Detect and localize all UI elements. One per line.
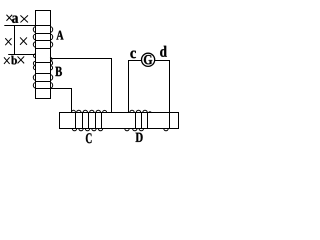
x mark row3 right	[18, 57, 24, 63]
coil B right bumps	[51, 58, 53, 89]
label a	[12, 16, 18, 23]
coil B left bumps	[33, 54, 35, 88]
coil A turn 1	[36, 25, 51, 27]
label B	[55, 67, 62, 76]
label G	[144, 55, 152, 64]
coil A turn 4	[36, 48, 51, 50]
coil B turn 3	[36, 81, 51, 83]
wire coil B bottom to coil C left end	[51, 89, 72, 113]
coil A turn 2	[36, 33, 51, 35]
wire terminal b	[9, 54, 36, 56]
coil C top bumps	[72, 110, 107, 112]
label c	[130, 51, 136, 59]
wire galvanometer loop left	[129, 61, 142, 113]
coil A left bumps	[33, 27, 35, 47]
coil A right bumps	[51, 27, 53, 47]
coil D turns	[136, 113, 148, 129]
coil A turn 3	[36, 40, 51, 42]
wire vertical from a-wire down to b-wire	[14, 26, 16, 55]
label A	[56, 31, 63, 40]
label D	[136, 133, 143, 142]
galvanometer G circle	[142, 53, 155, 66]
x mark row2 right	[20, 38, 26, 45]
coil D top bumps	[130, 110, 152, 112]
wire coil B top to coil C right end	[51, 59, 112, 113]
coil B turn 1	[36, 62, 51, 64]
coil B turn 4	[36, 88, 51, 90]
x mark row3 left	[4, 58, 9, 64]
x mark row2 left	[6, 39, 12, 45]
coil B turn 2	[36, 73, 51, 75]
wire galvanometer loop right	[155, 61, 170, 129]
x mark row1 left	[7, 15, 12, 20]
coil C bottom bumps	[72, 129, 102, 131]
iron core vertical	[36, 11, 51, 99]
iron core horizontal	[60, 113, 179, 129]
wire terminal a	[5, 25, 36, 27]
coil C turns	[76, 113, 102, 129]
coil D bottom bumps	[125, 129, 168, 131]
x mark row1 right	[21, 16, 28, 22]
label b	[11, 56, 17, 65]
label C	[86, 133, 92, 143]
label d	[160, 46, 167, 57]
